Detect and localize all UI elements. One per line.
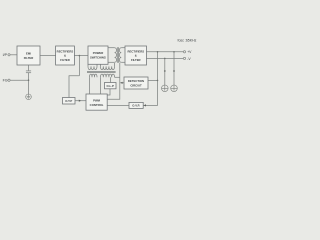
wire FG to vertical [10, 79, 28, 81]
aux winding drop mid to PWM [100, 77, 102, 94]
wire transformer to rectifiers2 top [121, 47, 125, 49]
capacitor Y-cap plates [26, 70, 31, 72]
junction dot detection sense [157, 80, 159, 82]
svg-text:FILTER: FILTER [131, 58, 141, 62]
aux winding top row group A [88, 66, 97, 69]
arrow OTP to PWM [79, 100, 81, 102]
arrow into OVP [144, 104, 146, 106]
svg-text:FILTER: FILTER [24, 56, 34, 60]
O.L.P box [105, 83, 117, 89]
sense vertical drop left pot [164, 58, 166, 85]
wire -V output line [147, 57, 184, 59]
EMI filter box [17, 46, 40, 65]
junction dot -V pot tap [164, 58, 166, 60]
wire detection to sense line [148, 79, 158, 81]
earth ground symbol [26, 94, 32, 100]
secondary return vertical [107, 63, 120, 100]
svg-text:SWITCHING: SWITCHING [90, 55, 106, 59]
aux bottom right jog [115, 76, 120, 78]
svg-text:I/P: I/P [3, 53, 8, 57]
adjust pot right [171, 85, 178, 92]
-V terminal [183, 57, 185, 59]
wire Y-cap to earth [28, 73, 30, 94]
svg-text:CIRCUIT: CIRCUIT [130, 83, 142, 87]
aux winding right stub up to transformer [114, 63, 116, 66]
arrow line detection left [120, 82, 124, 84]
I/P terminal [8, 54, 10, 56]
wire transformer to rectifiers2 bottom [121, 61, 125, 63]
svg-text:O.V.P.: O.V.P. [132, 104, 140, 108]
O.V.P box [129, 102, 143, 108]
svg-text:FG: FG [3, 79, 8, 83]
wire jog to O.T.P [69, 76, 79, 98]
transformer T1 primary winding [115, 48, 117, 63]
PWM control box U2 [86, 94, 107, 110]
svg-text:POWER: POWER [93, 51, 104, 55]
junction RECT1-PS line [78, 56, 80, 76]
O.T.P box [63, 98, 76, 105]
svg-text:CONTROL: CONTROL [90, 103, 104, 107]
aux winding core [87, 70, 116, 72]
FG terminal [8, 79, 10, 81]
junction dot RECT1-PS tap [79, 55, 81, 57]
wire I/P to EMI filter [10, 54, 17, 56]
svg-text:O.T.P: O.T.P [65, 99, 72, 103]
aux winding top stubs to PS box [87, 64, 89, 66]
wire O.L.P to PWM [107, 89, 110, 95]
transformer T1 secondary winding [119, 48, 121, 63]
aux winding top row group B [101, 66, 115, 69]
wire rectifiers1 to power switching [74, 55, 88, 57]
wire O.V.P to sense vertical [143, 52, 157, 106]
svg-text:PWM: PWM [93, 98, 101, 102]
aux winding bottom row group B [101, 74, 115, 77]
svg-text:EMI: EMI [26, 51, 31, 55]
svg-text:O.L.P: O.L.P [107, 84, 114, 88]
wire EMI bottom to Y-capacitor [28, 65, 30, 71]
+V terminal [183, 51, 185, 53]
detection circuit box [124, 77, 148, 89]
rectifiers &amp; filter box 1 [56, 46, 75, 65]
transformer T1 core [116, 47, 118, 63]
wire PS to transformer top [108, 47, 115, 49]
polarity dot left pot line [164, 70, 166, 72]
svg-text:fosc :65KHz: fosc :65KHz [178, 39, 197, 43]
power switching box U1 [88, 46, 108, 64]
wire PWM to O.V.P [107, 104, 129, 106]
adjust pot left [162, 85, 169, 92]
svg-text:FILTER: FILTER [60, 58, 70, 62]
sense vertical drop right pot [173, 52, 175, 85]
wire +V output line [147, 51, 184, 53]
svg-text:+V: +V [187, 50, 192, 54]
wire PS to transformer bottom [108, 61, 115, 63]
wire O.T.P to PWM [75, 100, 86, 102]
aux winding bottom row group A [90, 74, 98, 77]
aux winding drop left to PWM [89, 77, 91, 94]
polarity dot right pot line [173, 70, 175, 72]
wire EMI to rectifiers1 [40, 55, 56, 57]
junction dot FG-earth [28, 79, 30, 81]
svg-text:DETECTION: DETECTION [128, 79, 144, 83]
arrow into detection sense [120, 82, 122, 84]
junction dot +V pot tap [173, 51, 175, 53]
rectifiers &amp; filter box 2 [125, 46, 147, 65]
junction dot +V sense [157, 51, 159, 53]
aux winding drop to O.L.P [110, 77, 112, 82]
